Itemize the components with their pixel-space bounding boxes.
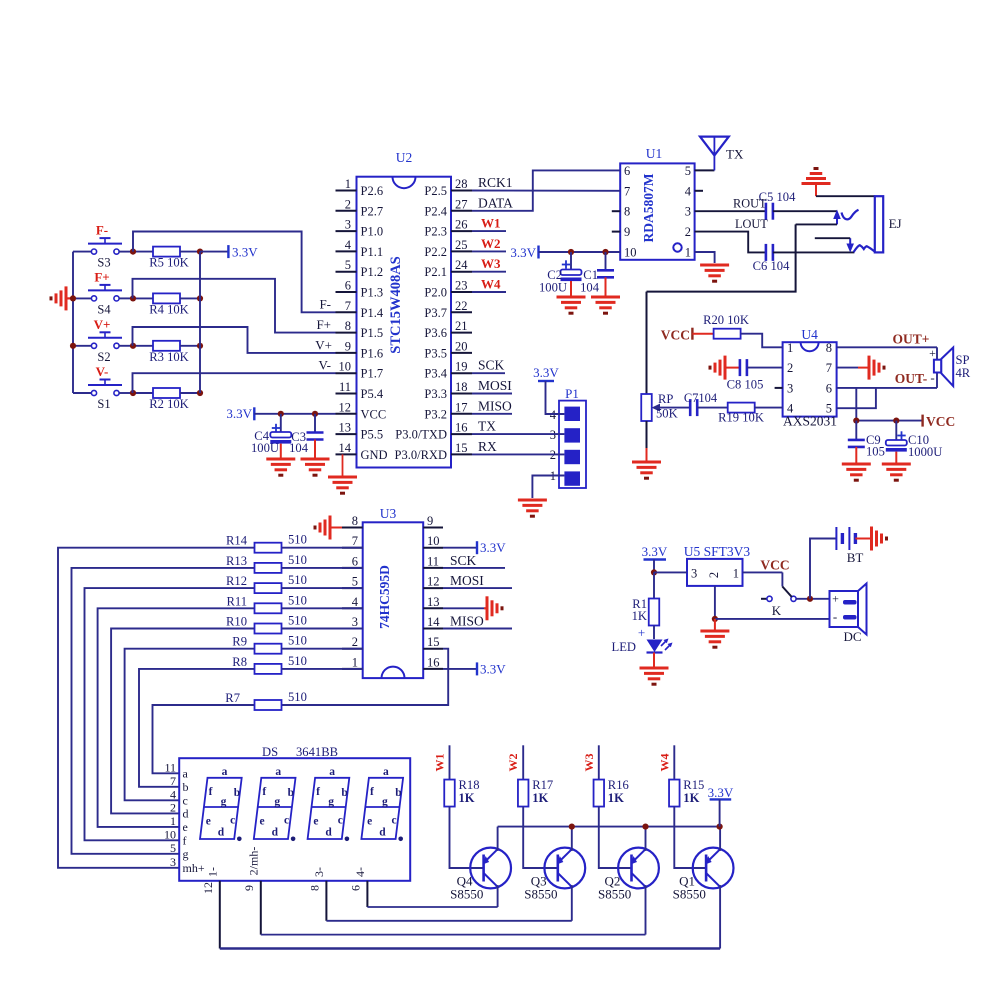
svg-text:28: 28 bbox=[455, 177, 468, 191]
svg-text:OUT-: OUT- bbox=[895, 371, 928, 386]
svg-text:11: 11 bbox=[164, 760, 176, 774]
ground below C9 bbox=[842, 463, 871, 466]
U3 pin 11 bbox=[423, 554, 443, 568]
svg-text:C7104: C7104 bbox=[684, 391, 718, 405]
junction bbox=[312, 411, 318, 417]
svg-text:3: 3 bbox=[691, 567, 697, 581]
svg-text:e: e bbox=[260, 816, 265, 828]
svg-text:b: b bbox=[395, 787, 401, 799]
wire emitter 3.3V rail bbox=[498, 826, 720, 828]
svg-text:R4 10K: R4 10K bbox=[149, 302, 189, 316]
svg-text:DS: DS bbox=[262, 745, 278, 759]
svg-text:104: 104 bbox=[580, 281, 600, 295]
svg-text:d: d bbox=[325, 827, 332, 839]
speaker SP bbox=[929, 346, 971, 388]
svg-text:R12: R12 bbox=[226, 574, 247, 588]
wire K to DC plus bbox=[796, 598, 830, 600]
svg-text:S4: S4 bbox=[97, 302, 111, 316]
svg-text:d: d bbox=[183, 806, 189, 820]
svg-text:f: f bbox=[370, 786, 374, 798]
svg-text:510: 510 bbox=[288, 573, 307, 587]
resistor R12 bbox=[226, 573, 363, 593]
U3 pin 14 bbox=[423, 615, 443, 629]
svg-text:2: 2 bbox=[352, 635, 358, 649]
svg-text:W2: W2 bbox=[506, 754, 520, 772]
svg-text:12: 12 bbox=[427, 575, 440, 589]
svg-text:R16: R16 bbox=[608, 778, 629, 792]
U2 pin 21 stub bbox=[424, 319, 472, 340]
svg-text:7: 7 bbox=[624, 184, 630, 198]
wire F- to U2 pin7 bbox=[133, 232, 336, 313]
svg-text:R10: R10 bbox=[226, 615, 247, 629]
svg-text:1K: 1K bbox=[608, 791, 624, 805]
svg-text:20: 20 bbox=[455, 339, 468, 353]
wire display pin9 bus bbox=[261, 934, 646, 936]
svg-text:a: a bbox=[383, 766, 389, 778]
potentiometer RP bbox=[641, 292, 690, 458]
power 3.3V at transistor rail bbox=[708, 785, 734, 827]
wire U5 pin2 to DC minus bbox=[715, 618, 830, 620]
svg-text:P3.2: P3.2 bbox=[424, 407, 447, 421]
wire R14 to display bbox=[58, 548, 254, 868]
svg-text:2: 2 bbox=[345, 197, 351, 211]
resistor R4 bbox=[133, 293, 200, 316]
svg-text:W1: W1 bbox=[481, 216, 501, 231]
svg-text:F+: F+ bbox=[316, 317, 331, 332]
junction bbox=[651, 569, 657, 575]
power 3.3V at U2 VCC bbox=[226, 406, 254, 421]
svg-text:510: 510 bbox=[288, 533, 307, 547]
svg-text:R5 10K: R5 10K bbox=[149, 256, 189, 270]
wire 3.3V to U5 pin3 bbox=[654, 571, 687, 573]
svg-text:16: 16 bbox=[427, 655, 440, 669]
svg-text:16: 16 bbox=[455, 421, 468, 435]
wire VCC rail amp bbox=[856, 420, 922, 422]
ground below C1 bbox=[591, 296, 620, 299]
junction bbox=[278, 411, 284, 417]
connector EJ jack body bbox=[875, 196, 902, 252]
svg-text:C6 104: C6 104 bbox=[753, 259, 790, 273]
svg-text:7: 7 bbox=[352, 534, 358, 548]
svg-text:W3: W3 bbox=[582, 754, 596, 772]
svg-text:VCC: VCC bbox=[760, 558, 789, 573]
wire U5 pin1 VCC bbox=[743, 571, 783, 573]
svg-text:13: 13 bbox=[427, 595, 440, 609]
svg-text:100U: 100U bbox=[539, 281, 567, 295]
svg-text:U1: U1 bbox=[646, 146, 663, 161]
transistor Q1 S8550 bbox=[673, 848, 734, 902]
svg-text:8: 8 bbox=[345, 319, 351, 333]
junction bbox=[807, 596, 813, 602]
svg-text:a: a bbox=[222, 766, 228, 778]
svg-text:f: f bbox=[262, 786, 266, 798]
svg-text:U2: U2 bbox=[396, 150, 413, 165]
U2 pin 17 stub bbox=[424, 400, 472, 421]
LED bbox=[612, 625, 673, 668]
svg-text:-: - bbox=[833, 609, 837, 624]
wire U4 pin6 OUT- bbox=[837, 387, 937, 389]
svg-text:MOSI: MOSI bbox=[450, 573, 484, 588]
svg-text:3: 3 bbox=[787, 381, 793, 395]
U2 pin 24 stub bbox=[424, 258, 472, 279]
svg-text:R15: R15 bbox=[683, 778, 704, 792]
svg-text:+: + bbox=[929, 346, 936, 360]
svg-text:6: 6 bbox=[352, 554, 358, 568]
wire U4 pin8 OUT+ bbox=[837, 346, 937, 348]
svg-text:11: 11 bbox=[427, 554, 439, 568]
svg-text:W1: W1 bbox=[433, 754, 447, 772]
svg-text:3.3V: 3.3V bbox=[232, 245, 258, 260]
svg-text:STC15W408AS: STC15W408AS bbox=[388, 256, 404, 354]
jack ring contact bbox=[846, 238, 874, 252]
wire W2 drop bbox=[522, 745, 524, 779]
svg-text:15: 15 bbox=[427, 635, 440, 649]
svg-text:4: 4 bbox=[550, 408, 557, 422]
regulator U5 SFT3V3 bbox=[684, 544, 751, 586]
svg-text:e: e bbox=[206, 816, 211, 828]
svg-text:2: 2 bbox=[787, 361, 793, 375]
wire R15 to base bbox=[674, 807, 706, 869]
svg-text:1-: 1- bbox=[205, 867, 219, 877]
resistor R11 bbox=[226, 593, 362, 613]
junction bbox=[602, 249, 608, 255]
connector P1 bbox=[559, 386, 586, 488]
svg-text:3: 3 bbox=[685, 205, 691, 219]
junction bbox=[893, 418, 899, 424]
U2 pin 22 stub bbox=[424, 299, 472, 320]
svg-text:8: 8 bbox=[826, 341, 832, 355]
svg-text:3-: 3- bbox=[312, 867, 326, 877]
U2 pin 19 stub bbox=[424, 360, 472, 381]
wire R9 to display bbox=[125, 649, 254, 801]
junction bbox=[70, 343, 76, 349]
svg-text:1: 1 bbox=[685, 246, 691, 260]
display pin 5 g bbox=[170, 841, 189, 861]
svg-text:C8 105: C8 105 bbox=[727, 378, 764, 392]
svg-text:a: a bbox=[183, 766, 189, 780]
svg-text:1: 1 bbox=[352, 655, 358, 669]
U3 pin 1 bbox=[342, 655, 363, 669]
svg-text:8: 8 bbox=[307, 885, 321, 891]
svg-text:F-: F- bbox=[96, 223, 108, 238]
wire U3 MOSI bbox=[443, 587, 512, 589]
svg-text:SCK: SCK bbox=[478, 358, 505, 373]
svg-text:1: 1 bbox=[170, 814, 176, 828]
capacitor C4 bbox=[251, 414, 291, 459]
svg-text:R17: R17 bbox=[532, 778, 553, 792]
display pin 7 b bbox=[170, 774, 189, 794]
svg-text:V-: V- bbox=[96, 364, 109, 379]
svg-text:R3 10K: R3 10K bbox=[149, 350, 189, 364]
svg-text:10: 10 bbox=[164, 827, 176, 841]
svg-text:2: 2 bbox=[707, 572, 721, 578]
U3 pin 4 bbox=[342, 595, 363, 609]
svg-text:P3.6: P3.6 bbox=[424, 326, 447, 340]
svg-text:b: b bbox=[341, 787, 347, 799]
switch S4 bbox=[73, 285, 133, 317]
wire U3 MISO bbox=[443, 628, 512, 630]
wire RX to P1 pin2 bbox=[472, 453, 564, 455]
junction bbox=[568, 249, 574, 255]
svg-text:EJ: EJ bbox=[889, 216, 902, 231]
U3 pin 15 bbox=[423, 635, 443, 649]
junction bbox=[712, 616, 718, 622]
U2 pin 9 stub bbox=[336, 339, 384, 360]
junction bbox=[197, 390, 203, 396]
U2 pin 28 stub bbox=[424, 177, 472, 198]
svg-text:1: 1 bbox=[345, 177, 351, 191]
svg-text:21: 21 bbox=[455, 319, 468, 333]
antenna TX bbox=[695, 137, 744, 171]
svg-text:S8550: S8550 bbox=[598, 887, 631, 902]
U3 pin 16 bbox=[423, 655, 443, 669]
svg-text:MISO: MISO bbox=[450, 614, 484, 629]
wire V+ to U2 pin9 bbox=[133, 327, 336, 353]
svg-text:d: d bbox=[272, 827, 279, 839]
ground at U3 pin8 bbox=[315, 516, 342, 540]
svg-text:R8: R8 bbox=[232, 655, 247, 669]
svg-text:AXS2031: AXS2031 bbox=[783, 414, 837, 429]
U2 pin 13 stub bbox=[336, 421, 384, 442]
svg-text:6: 6 bbox=[345, 279, 351, 293]
svg-text:P2.0: P2.0 bbox=[424, 286, 447, 300]
svg-text:RX: RX bbox=[478, 439, 497, 454]
U2 pin 8 stub bbox=[336, 319, 384, 340]
ground below C4 bbox=[266, 458, 295, 461]
svg-text:c: c bbox=[284, 815, 289, 827]
U3 pin 9 bbox=[423, 514, 443, 528]
svg-text:c: c bbox=[338, 815, 343, 827]
battery BT bbox=[836, 527, 863, 565]
ground below LED bbox=[640, 667, 669, 670]
svg-text:1K: 1K bbox=[532, 791, 548, 805]
ground left of C8 bbox=[710, 356, 740, 380]
svg-text:S2: S2 bbox=[97, 350, 110, 364]
wire MISO bbox=[472, 413, 512, 415]
wire Q4 emitter bbox=[497, 827, 499, 851]
svg-text:3.3V: 3.3V bbox=[708, 785, 734, 800]
svg-text:DC: DC bbox=[843, 629, 861, 644]
7-segment digit 3 bbox=[308, 766, 350, 841]
svg-text:P3.7: P3.7 bbox=[424, 306, 447, 320]
svg-text:3.3V: 3.3V bbox=[226, 406, 252, 421]
wire R16 to base bbox=[599, 807, 632, 869]
svg-text:510: 510 bbox=[288, 593, 307, 607]
wire R18 to base bbox=[450, 807, 484, 869]
svg-text:18: 18 bbox=[455, 380, 468, 394]
svg-text:e: e bbox=[183, 820, 188, 834]
svg-text:2/mh-: 2/mh- bbox=[246, 847, 260, 876]
svg-text:e: e bbox=[367, 816, 372, 828]
svg-text:R14: R14 bbox=[226, 534, 248, 548]
svg-text:7: 7 bbox=[826, 361, 832, 375]
resistor R7 bbox=[225, 690, 307, 710]
wire display pin8 bus bbox=[326, 920, 571, 922]
svg-text:-: - bbox=[930, 370, 934, 385]
svg-text:510: 510 bbox=[288, 690, 307, 704]
wire R19 to U4 pin4 bbox=[754, 407, 782, 409]
U3 pin 12 bbox=[423, 575, 443, 589]
svg-text:510: 510 bbox=[288, 634, 307, 648]
wire R8 to display bbox=[139, 669, 254, 787]
svg-text:S3: S3 bbox=[97, 256, 110, 270]
svg-text:P1.0: P1.0 bbox=[361, 225, 384, 239]
svg-text:6: 6 bbox=[826, 381, 832, 395]
svg-text:W2: W2 bbox=[481, 236, 501, 251]
svg-text:19: 19 bbox=[455, 360, 468, 374]
resistor R13 bbox=[226, 553, 363, 573]
resistor R17 bbox=[518, 778, 553, 807]
svg-text:RDA5807M: RDA5807M bbox=[641, 173, 656, 242]
svg-text:3: 3 bbox=[345, 218, 351, 232]
svg-text:BT: BT bbox=[847, 550, 864, 565]
chip U3 74HC595D bbox=[363, 506, 424, 678]
svg-text:2: 2 bbox=[685, 225, 691, 239]
svg-text:4R: 4R bbox=[956, 366, 971, 380]
svg-text:g: g bbox=[183, 847, 189, 861]
ground at U1 pin1 bbox=[700, 264, 729, 267]
capacitor C10 bbox=[886, 421, 942, 464]
resistor R16 bbox=[594, 778, 629, 807]
capacitor C7 bbox=[684, 391, 718, 416]
ground left of switches bbox=[51, 286, 73, 310]
svg-text:a: a bbox=[329, 766, 335, 778]
svg-text:5: 5 bbox=[170, 841, 176, 855]
display pin 4 c bbox=[170, 787, 188, 807]
power 3.3V at U1 pin10 bbox=[510, 245, 620, 260]
U1 pin4 stub bbox=[695, 190, 703, 192]
wire W4 bbox=[472, 291, 506, 293]
svg-text:6: 6 bbox=[624, 164, 630, 178]
svg-text:P1.5: P1.5 bbox=[361, 326, 384, 340]
display pin 10 f bbox=[164, 827, 187, 847]
U2 pin 10 stub bbox=[336, 360, 384, 381]
svg-text:c: c bbox=[183, 793, 188, 807]
wire W4 drop bbox=[673, 745, 675, 779]
svg-text:RCK1: RCK1 bbox=[478, 175, 513, 190]
U2 pin 5 stub bbox=[336, 258, 384, 279]
svg-text:11: 11 bbox=[339, 380, 351, 394]
U2 pin 16 stub bbox=[395, 421, 472, 442]
wire jack to amplifier bbox=[647, 224, 796, 291]
wire R17 to base bbox=[523, 807, 558, 869]
svg-text:c: c bbox=[230, 815, 235, 827]
svg-text:S8550: S8550 bbox=[673, 887, 706, 902]
svg-text:VCC: VCC bbox=[361, 407, 387, 421]
svg-text:4: 4 bbox=[685, 184, 692, 198]
svg-text:F+: F+ bbox=[94, 269, 109, 284]
wire DATA U2.27 to U1.6 bbox=[472, 170, 620, 210]
junction bbox=[717, 824, 723, 830]
svg-text:F-: F- bbox=[319, 297, 331, 312]
capacitor C6 bbox=[753, 244, 790, 273]
wire R13 to display bbox=[72, 568, 255, 854]
wire pin6 to VCC rail bbox=[855, 388, 857, 421]
svg-text:P2.7: P2.7 bbox=[361, 204, 384, 218]
P1 pin numbers bbox=[550, 408, 557, 483]
svg-text:5: 5 bbox=[826, 402, 832, 416]
wire ROUT bbox=[695, 210, 766, 212]
U2 pin 7 stub bbox=[336, 299, 384, 320]
svg-text:P3.0/RXD: P3.0/RXD bbox=[395, 448, 447, 462]
junction bbox=[569, 824, 575, 830]
svg-text:1: 1 bbox=[733, 567, 739, 581]
svg-text:P1.6: P1.6 bbox=[361, 346, 384, 360]
U2 pin 25 stub bbox=[424, 238, 472, 259]
wire U3 pin15 to R7 bbox=[282, 649, 448, 705]
svg-text:1000U: 1000U bbox=[908, 445, 942, 459]
svg-text:510: 510 bbox=[288, 614, 307, 628]
svg-text:OUT+: OUT+ bbox=[893, 332, 930, 347]
wire C5 to jack tip bbox=[773, 210, 837, 212]
svg-text:S8550: S8550 bbox=[450, 887, 483, 902]
svg-text:P2.1: P2.1 bbox=[424, 265, 447, 279]
svg-text:100U: 100U bbox=[251, 441, 279, 455]
svg-text:12: 12 bbox=[339, 400, 352, 414]
svg-text:RP: RP bbox=[658, 392, 673, 406]
svg-text:W4: W4 bbox=[657, 754, 671, 772]
switch K bbox=[761, 572, 796, 618]
svg-text:U5 SFT3V3: U5 SFT3V3 bbox=[684, 544, 751, 559]
svg-text:SP: SP bbox=[956, 353, 970, 367]
svg-text:3.3V: 3.3V bbox=[510, 245, 536, 260]
svg-text:4: 4 bbox=[345, 238, 352, 252]
U2 pin 11 stub bbox=[336, 380, 384, 401]
switch S2 bbox=[73, 332, 133, 364]
capacitor C2 bbox=[539, 252, 582, 297]
svg-text:VCC: VCC bbox=[661, 328, 690, 343]
resistor R20 bbox=[703, 313, 749, 339]
wire U3 pin13 to ground bbox=[443, 596, 502, 620]
U2 pin 27 stub bbox=[424, 197, 472, 218]
svg-text:P5.5: P5.5 bbox=[361, 428, 384, 442]
svg-text:R2 10K: R2 10K bbox=[149, 397, 189, 411]
capacitor C9 bbox=[848, 421, 885, 464]
U4 pin3 stub bbox=[775, 387, 783, 389]
svg-text:510: 510 bbox=[288, 553, 307, 567]
wire to battery bbox=[810, 539, 836, 599]
svg-text:+: + bbox=[638, 625, 645, 640]
switch S1 bbox=[73, 380, 133, 412]
svg-text:510: 510 bbox=[288, 654, 307, 668]
svg-text:LED: LED bbox=[612, 640, 636, 654]
display pin 3 mh+ bbox=[170, 855, 205, 875]
wire R7 to display bbox=[153, 705, 255, 773]
svg-text:V+: V+ bbox=[315, 338, 332, 353]
resistor R15 bbox=[669, 778, 704, 807]
svg-text:mh+: mh+ bbox=[183, 861, 205, 875]
svg-text:13: 13 bbox=[339, 421, 352, 435]
svg-text:P1.2: P1.2 bbox=[361, 265, 384, 279]
junction bbox=[130, 343, 136, 349]
svg-text:LOUT: LOUT bbox=[735, 217, 768, 231]
svg-text:6: 6 bbox=[348, 885, 362, 891]
wire left bus of switches bbox=[72, 252, 74, 393]
display pin 6 4- bbox=[348, 867, 367, 907]
wire U5 pin2 down bbox=[714, 586, 716, 619]
switch S3 bbox=[73, 238, 133, 270]
wire display pin6 bus bbox=[367, 906, 497, 908]
U2 pin 23 stub bbox=[424, 279, 472, 300]
power VCC at R20 bbox=[661, 328, 714, 343]
resistor R5 bbox=[133, 247, 200, 270]
wire R20 to U4 pin1 bbox=[741, 334, 783, 348]
svg-text:P3.4: P3.4 bbox=[424, 367, 447, 381]
svg-text:f: f bbox=[316, 786, 320, 798]
transistor Q4 S8550 bbox=[450, 848, 511, 902]
U2 pin 15 stub bbox=[395, 441, 472, 462]
svg-text:e: e bbox=[313, 816, 318, 828]
